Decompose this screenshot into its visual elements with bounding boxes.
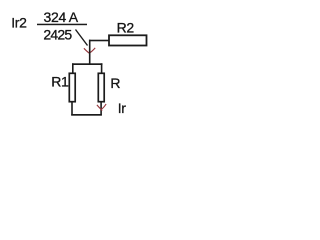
resistor R2 bbox=[109, 35, 147, 45]
wire stub top right bbox=[101, 63, 103, 73]
current arrow Ir (red arrowhead) bbox=[97, 104, 106, 111]
fraction bar bbox=[37, 24, 87, 26]
svg-text:324 A: 324 A bbox=[44, 9, 79, 25]
svg-text:Ir: Ir bbox=[118, 100, 127, 116]
wire stub bottom left bbox=[71, 103, 73, 116]
wire top horizontal bbox=[72, 63, 103, 65]
resistor R1 bbox=[69, 73, 75, 101]
svg-text:2425: 2425 bbox=[43, 27, 72, 43]
wire stub top left bbox=[72, 63, 74, 73]
current arrow Ir2 (red arrowhead) bbox=[84, 48, 95, 55]
pointer line from 2425 to node bbox=[76, 30, 88, 46]
resistor R bbox=[98, 73, 104, 101]
svg-text:Ir2: Ir2 bbox=[11, 14, 27, 30]
svg-text:R: R bbox=[110, 75, 120, 91]
wire to R2 bbox=[89, 40, 109, 42]
wire bottom horizontal bbox=[71, 114, 102, 116]
wire stub bottom right bbox=[100, 103, 102, 116]
svg-text:R1: R1 bbox=[51, 74, 69, 90]
svg-text:R2: R2 bbox=[117, 19, 135, 35]
wire vertical node to top bbox=[89, 40, 91, 65]
